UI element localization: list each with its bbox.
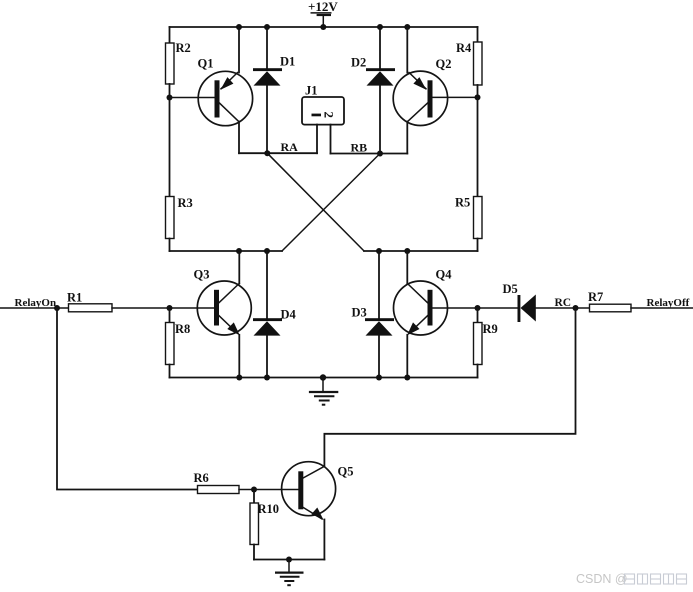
wire Q2 base <box>433 96 478 98</box>
svg-text:R2: R2 <box>176 41 191 55</box>
svg-text:D5: D5 <box>503 282 518 296</box>
node RA <box>264 150 270 156</box>
node bottom rail at D4 <box>264 375 270 381</box>
wire Q4 collector up <box>406 251 408 283</box>
node top rail at Q1 emitter <box>236 24 242 30</box>
wire Q3 base <box>170 307 215 309</box>
node Q3 base / R1 / R8 <box>167 305 173 311</box>
wire Q1 emitter to rail <box>238 27 240 73</box>
svg-text:Q4: Q4 <box>436 268 453 282</box>
svg-text:D4: D4 <box>281 308 297 322</box>
resistor R7 <box>576 290 693 312</box>
watermark CSDN <box>576 572 687 586</box>
node Q1 base / R2 / R3 <box>167 95 173 101</box>
svg-text:R9: R9 <box>483 322 498 336</box>
node top rail at +12V <box>320 24 326 30</box>
wire top rail <box>170 26 478 28</box>
resistor R2 <box>166 27 191 98</box>
wire Q3 collector up <box>238 251 240 283</box>
node bottom rail at Q4 emitter <box>404 375 410 381</box>
node bottom rail at Q3 emitter <box>236 375 242 381</box>
svg-text:J1: J1 <box>305 84 318 98</box>
svg-text:2: 2 <box>322 112 337 119</box>
wire Q2 collector down <box>406 122 408 154</box>
svg-text:R6: R6 <box>194 471 209 485</box>
node ground 2 <box>286 557 292 563</box>
diode D3 <box>352 251 395 378</box>
node RelayOn <box>54 305 60 311</box>
svg-text:R8: R8 <box>175 322 190 336</box>
svg-text:D1: D1 <box>280 55 295 69</box>
svg-text:Q1: Q1 <box>198 57 214 71</box>
wire RB segment <box>331 153 408 155</box>
svg-text:D3: D3 <box>352 306 367 320</box>
node mid-right rail at D3 <box>376 248 382 254</box>
resistor R6 <box>194 471 255 494</box>
resistor R1 <box>67 291 170 312</box>
diode D2 <box>351 27 395 154</box>
wire Q1 collector down <box>238 122 240 154</box>
wire Q4 base <box>433 307 519 309</box>
svg-text:RelayOff: RelayOff <box>647 297 690 309</box>
ground (main) <box>309 378 338 405</box>
wire emitter to R10 bottom <box>254 559 324 561</box>
diode D1 <box>253 27 295 153</box>
node top rail at D1 <box>264 24 270 30</box>
svg-text:RC: RC <box>555 297 572 309</box>
node R6 / R10 / Q5 base <box>251 487 257 493</box>
wire cross RB to left rail <box>282 154 380 252</box>
svg-text:R10: R10 <box>258 502 280 516</box>
transistor Q2 <box>393 57 451 126</box>
ground (Q5) <box>275 560 304 586</box>
resistor R3 <box>166 98 193 252</box>
node mid-right rail at Q4 collector <box>404 248 410 254</box>
svg-text:Q2: Q2 <box>436 57 452 71</box>
transistor Q3 <box>194 268 252 336</box>
relay J1 <box>302 84 344 154</box>
wire Q4 emitter down <box>406 335 408 378</box>
resistor R10 <box>250 490 279 560</box>
resistor R8 <box>166 308 191 378</box>
node bottom rail at D3 <box>376 375 382 381</box>
wire mid-right rail <box>364 250 478 252</box>
svg-text:RelayOn: RelayOn <box>15 297 57 309</box>
wire bottom rail <box>170 377 478 379</box>
wire Q2 emitter to rail <box>406 27 408 73</box>
wire RA segment <box>239 152 317 154</box>
diode D5 <box>503 282 576 322</box>
svg-text:R1: R1 <box>67 291 82 305</box>
resistor R9 <box>474 308 498 378</box>
wire Q1 base <box>170 97 215 99</box>
transistor Q4 <box>394 268 453 336</box>
node top rail at Q2 emitter <box>404 24 410 30</box>
node RC <box>573 305 579 311</box>
resistor R4 <box>456 27 482 97</box>
svg-text:R3: R3 <box>178 196 193 210</box>
svg-text:R4: R4 <box>456 41 472 55</box>
wire left input <box>0 307 69 309</box>
wire cross RA to right rail <box>267 153 364 251</box>
wire RelayOn down to R6 <box>57 308 198 490</box>
svg-text:Q5: Q5 <box>338 465 354 479</box>
wire Q5 base <box>254 489 298 491</box>
svg-text:+12V: +12V <box>308 0 338 14</box>
wire Q5 emitter down <box>323 520 325 560</box>
node Q2 base / R4 / R5 <box>475 94 481 100</box>
diode D4 <box>253 251 297 378</box>
node Q4 base / R9 <box>475 305 481 311</box>
svg-text:Q3: Q3 <box>194 268 210 282</box>
wire Q5 collector up and across to RC <box>324 308 575 466</box>
transistor Q5 <box>282 462 354 520</box>
svg-text:RB: RB <box>351 141 368 155</box>
svg-text:RA: RA <box>281 140 299 154</box>
transistor Q1 <box>198 57 253 126</box>
svg-text:R5: R5 <box>455 196 470 210</box>
svg-text:R7: R7 <box>588 290 603 304</box>
node top rail at D2 <box>377 24 383 30</box>
node RB <box>377 151 383 157</box>
wire Q3 emitter down <box>238 335 240 378</box>
node bottom rail at ground <box>320 374 326 380</box>
node mid-left rail at Q3 collector <box>236 248 242 254</box>
svg-text:D2: D2 <box>351 56 366 70</box>
node mid-left rail at D4 <box>264 248 270 254</box>
+12V power symbol <box>308 0 338 27</box>
resistor R5 <box>455 97 482 251</box>
svg-text:CSDN @: CSDN @ <box>576 572 628 586</box>
wire mid-left rail <box>170 250 283 252</box>
